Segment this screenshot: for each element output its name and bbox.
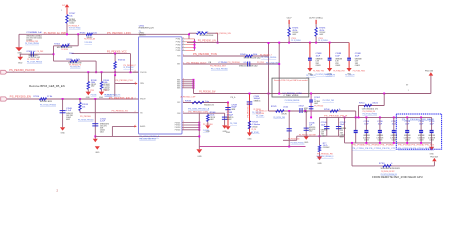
svg-text:EN/UV: EN/UV bbox=[140, 99, 146, 101]
svg-text:PS_C7122_PE PS_C7124_PE PS_C: PS_C7122_PE PS_C7124_PE PS_C bbox=[398, 148, 435, 150]
svg-text:CSP: CSP bbox=[177, 102, 180, 104]
svg-text:0402: 0402 bbox=[292, 34, 296, 36]
svg-text:PS_C7116_PE PS_C7118_PE PS_C71: PS_C7116_PE PS_C7118_PE PS_C71 bbox=[352, 148, 396, 150]
svg-text:PVIN5: PVIN5 bbox=[176, 50, 181, 52]
svg-text:GRM155 16V X5R 0402: GRM155 16V X5R 0402 bbox=[239, 66, 258, 68]
svg-text:PS_PEX300_AA_PWR: PS_PEX300_AA_PWR bbox=[44, 32, 66, 35]
svg-text:PVIN2: PVIN2 bbox=[176, 42, 181, 44]
svg-text:SW2: SW2 bbox=[177, 82, 181, 84]
svg-text:10V X5R: 10V X5R bbox=[309, 129, 316, 131]
svg-text:6.3V X5R: 6.3V X5R bbox=[418, 137, 426, 139]
svg-text:0: 0 bbox=[207, 32, 208, 34]
svg-text:PS_PEX300_SS: PS_PEX300_SS bbox=[112, 110, 129, 112]
svg-text:HSM67MTQJ-R: HSM67MTQJ-R bbox=[139, 28, 154, 30]
svg-text:GRM188: GRM188 bbox=[340, 128, 346, 130]
svg-text:GRM155: GRM155 bbox=[254, 100, 261, 102]
svg-text:C7069B/E 1uF: C7069B/E 1uF bbox=[26, 32, 42, 34]
svg-text:R7116: R7116 bbox=[33, 96, 40, 98]
svg-text:6.3V X5R: 6.3V X5R bbox=[428, 137, 436, 139]
svg-text:PS_PEX300_FB_RMT: PS_PEX300_FB_RMT bbox=[381, 171, 395, 173]
svg-text:100k: 100k bbox=[91, 82, 95, 84]
svg-text:C0603: C0603 bbox=[321, 136, 326, 138]
svg-text:PS_R_PEX300: PS_R_PEX300 bbox=[291, 40, 300, 42]
svg-text:PGND4: PGND4 bbox=[175, 130, 181, 132]
svg-text:SW1: SW1 bbox=[177, 80, 181, 82]
svg-text:PVIN1: PVIN1 bbox=[176, 39, 181, 41]
svg-text:PS_PEX300_REMOVE: PS_PEX300_REMOVE bbox=[285, 100, 300, 102]
svg-text:PS_PEX300_LION: PS_PEX300_LION bbox=[107, 32, 131, 35]
svg-text:C0603: C0603 bbox=[340, 135, 345, 137]
svg-text:PS_PGND PS_PGND PS_PGND: PS_PGND PS_PGND PS_PGND bbox=[352, 145, 395, 147]
svg-text:PS3_V08: PS3_V08 bbox=[430, 156, 438, 158]
svg-text:C0603: C0603 bbox=[405, 139, 410, 141]
svg-text:20.0k: 20.0k bbox=[283, 107, 288, 109]
svg-text:PS_R7112_PEX300_F: PS_R7112_PEX300_F bbox=[317, 156, 335, 158]
svg-text:2.0m: 2.0m bbox=[93, 33, 98, 35]
svg-text:PS_C7106_PEX: PS_C7106_PEX bbox=[266, 62, 280, 64]
svg-text:HS_U82 SK3 HS3: HS_U82 SK3 HS3 bbox=[139, 138, 156, 140]
svg-text:NT: NT bbox=[406, 84, 408, 86]
svg-text:6.3V X5R: 6.3V X5R bbox=[404, 137, 412, 139]
svg-text:PS_C7069_PEX300: PS_C7069_PEX300 bbox=[27, 61, 42, 63]
svg-text:PS_R7102_PEX: PS_R7102_PEX bbox=[323, 100, 335, 102]
svg-text:R7106: R7106 bbox=[324, 109, 330, 111]
svg-text:PS_PEX300_PH: PS_PEX300_PH bbox=[247, 102, 249, 118]
svg-text:U7_PEX300_COM: U7_PEX300_COM bbox=[283, 93, 302, 95]
svg-text:CRCW0402: CRCW0402 bbox=[252, 126, 257, 128]
svg-text:PS3: PS3 bbox=[90, 90, 93, 92]
svg-text:PS_PEX300_BOOT: PS_PEX300_BOOT bbox=[187, 63, 208, 65]
svg-text:C0603: C0603 bbox=[378, 139, 383, 141]
svg-text:R7032: R7032 bbox=[197, 32, 203, 34]
svg-text:C7098 10pF: C7098 10pF bbox=[299, 105, 305, 107]
svg-text:0.1uF: 0.1uF bbox=[66, 110, 72, 112]
svg-text:10uF: 10uF bbox=[335, 55, 340, 57]
svg-text:C0603: C0603 bbox=[316, 65, 321, 67]
svg-text:R7036: R7036 bbox=[66, 59, 72, 61]
svg-text:PS_PGND PS_PGND PS_PG: PS_PGND PS_PGND PS_PG bbox=[398, 145, 435, 147]
svg-text:SW3: SW3 bbox=[177, 84, 181, 86]
svg-text:PS_R7102_PEX300_FB: PS_R7102_PEX300_FB bbox=[316, 74, 333, 76]
svg-text:PS_PEX: PS_PEX bbox=[37, 51, 44, 53]
svg-text:PVIN3: PVIN3 bbox=[176, 44, 181, 46]
svg-text:R7105: R7105 bbox=[54, 43, 60, 45]
svg-text:C0603: C0603 bbox=[429, 139, 434, 141]
svg-text:R7040: R7040 bbox=[240, 54, 246, 56]
svg-text:PS_COMP_: PS_COMP_ bbox=[256, 116, 265, 118]
svg-text:10uF: 10uF bbox=[316, 55, 321, 57]
svg-text:PS_PEX300_AA: PS_PEX300_AA bbox=[84, 37, 95, 40]
svg-text:R7034: R7034 bbox=[80, 33, 86, 35]
svg-text:GND: GND bbox=[347, 73, 352, 75]
svg-text:U10_P: U10_P bbox=[287, 17, 292, 19]
svg-text:2.0m: 2.0m bbox=[205, 101, 210, 103]
svg-text:AGND: AGND bbox=[140, 125, 146, 128]
svg-text:6.3V X5R: 6.3V X5R bbox=[390, 137, 398, 139]
svg-text:PS_PEX300_CSN: PS_PEX300_CSN bbox=[188, 112, 208, 114]
svg-text:GND: GND bbox=[317, 163, 322, 165]
svg-text:PS_R7107_PEX300: PS_R7107_PEX300 bbox=[69, 28, 81, 30]
svg-text:GRM188: GRM188 bbox=[321, 130, 327, 132]
svg-text:C0603: C0603 bbox=[355, 65, 360, 67]
svg-text:GRM188: GRM188 bbox=[428, 135, 434, 137]
svg-text:CRCW0402: CRCW0402 bbox=[103, 84, 109, 86]
svg-text:PS_PEX300: PS_PEX300 bbox=[314, 105, 323, 107]
svg-text:10k: 10k bbox=[69, 16, 72, 18]
svg-text:C0603: C0603 bbox=[364, 139, 369, 141]
svg-text:PS_PEX300_PG1: PS_PEX300_PG1 bbox=[116, 80, 134, 82]
svg-text:1: 1 bbox=[408, 90, 409, 92]
svg-text:PS_PEX300: PS_PEX300 bbox=[203, 124, 213, 126]
svg-text:PS_R7018_PEX300: PS_R7018_PEX300 bbox=[78, 120, 93, 122]
svg-text:PS_R7034_PEX300: PS_R7034_PEX300 bbox=[85, 42, 93, 44]
svg-text:GRM: GRM bbox=[231, 109, 236, 111]
svg-text:PVIN4: PVIN4 bbox=[176, 47, 181, 49]
svg-text:0402: 0402 bbox=[66, 119, 70, 121]
svg-text:PS_PEX300_VCC: PS_PEX300_VCC bbox=[107, 52, 127, 54]
svg-text:17.8k: 17.8k bbox=[47, 96, 52, 98]
svg-text:10uF: 10uF bbox=[355, 55, 360, 57]
svg-text:FROM REMOTE PEX_2V0D NEAR GPU: FROM REMOTE PEX_2V0D NEAR GPU bbox=[372, 176, 423, 179]
svg-text:PS_PEX300_CO: PS_PEX300_CO bbox=[256, 111, 268, 113]
svg-text:GND: GND bbox=[18, 62, 23, 64]
svg-text:1: 1 bbox=[61, 10, 62, 12]
svg-text:PS_R7110_PEX30: PS_R7110_PEX30 bbox=[363, 114, 378, 116]
svg-text:6.3V X5R: 6.3V X5R bbox=[376, 137, 384, 139]
svg-text:GRM188: GRM188 bbox=[377, 135, 383, 137]
svg-text:PS_PEX300_V08: PS_PEX300_V08 bbox=[288, 138, 299, 140]
svg-text:PS_R7116_PEX300: PS_R7116_PEX300 bbox=[40, 105, 56, 107]
svg-text:PS_PEX300_LIN: PS_PEX300_LIN bbox=[198, 40, 216, 43]
svg-text:PS_G: PS_G bbox=[231, 97, 236, 99]
svg-text:GRM188: GRM188 bbox=[391, 135, 397, 137]
svg-text:PGND3: PGND3 bbox=[175, 127, 181, 129]
svg-text:MCR03 ERJ: MCR03 ERJ bbox=[40, 101, 52, 103]
svg-text:PS_R7108_PEX300_PG: PS_R7108_PEX300_PG bbox=[105, 94, 121, 96]
svg-text:WSL0603 0.5%: WSL0603 0.5% bbox=[204, 105, 214, 107]
svg-text:PGND2: PGND2 bbox=[175, 125, 181, 127]
svg-text:GRM188: GRM188 bbox=[363, 135, 369, 137]
svg-text:PS_R7046: PS_R7046 bbox=[203, 130, 209, 132]
svg-text:PS_PGND_PEX3: PS_PGND_PEX3 bbox=[353, 71, 365, 73]
svg-text:GND: GND bbox=[222, 131, 227, 133]
svg-text:GRM188: GRM188 bbox=[404, 135, 410, 137]
svg-text:PS_C7069_PEX300: PS_C7069_PEX300 bbox=[25, 43, 39, 45]
svg-text:SW4: SW4 bbox=[177, 86, 181, 88]
svg-text:C REF VREF: C REF VREF bbox=[283, 95, 298, 97]
svg-text:CRCW: CRCW bbox=[281, 114, 287, 116]
svg-text:R7110: R7110 bbox=[359, 102, 364, 104]
svg-text:C0603: C0603 bbox=[419, 139, 424, 141]
svg-text:PS_R36: PS_R36 bbox=[91, 95, 97, 97]
svg-text:1% 0402: 1% 0402 bbox=[103, 86, 109, 88]
svg-text:TDA88240RTV: TDA88240RTV bbox=[139, 34, 146, 37]
svg-text:C7069E 1uF: C7069E 1uF bbox=[26, 51, 36, 53]
svg-text:C0402: C0402 bbox=[69, 23, 74, 25]
svg-text:6.3V X5R: 6.3V X5R bbox=[363, 137, 371, 139]
svg-text:GRM188: GRM188 bbox=[418, 135, 424, 137]
svg-text:10k: 10k bbox=[82, 106, 85, 108]
svg-text:U4_PEX_CLKREQ_L: U4_PEX_CLKREQ_L bbox=[309, 17, 323, 19]
svg-text:PS_SNS_PEX300_A: PS_SNS_PEX300_A bbox=[188, 107, 210, 110]
svg-text:PS_R7108_PEX: PS_R7108_PEX bbox=[123, 67, 134, 69]
svg-text:PS_PEX: PS_PEX bbox=[257, 62, 265, 64]
svg-text:PS_PEX300_VIN: PS_PEX300_VIN bbox=[216, 33, 232, 35]
svg-text:0.1uF: 0.1uF bbox=[244, 62, 250, 64]
svg-text:CRCW0402: CRCW0402 bbox=[323, 147, 330, 149]
svg-text:A_PEX300_CSP: A_PEX300_CSP bbox=[181, 95, 197, 98]
svg-text:0402: 0402 bbox=[319, 34, 323, 36]
svg-text:PS_PEX300: PS_PEX300 bbox=[228, 62, 240, 64]
svg-text:GND: GND bbox=[95, 152, 100, 154]
svg-text:SW5: SW5 bbox=[177, 88, 181, 90]
svg-text:PS_R7076_PEX: PS_R7076_PEX bbox=[273, 117, 285, 119]
svg-text:PS_PEX300_FB: PS_PEX300_FB bbox=[363, 111, 376, 113]
svg-text:R7108 10k: R7108 10k bbox=[118, 60, 125, 62]
svg-text:PS_PEX300_T: PS_PEX300_T bbox=[260, 55, 273, 57]
svg-text:PS3_V33: PS3_V33 bbox=[425, 70, 433, 72]
svg-text:0402: 0402 bbox=[100, 131, 104, 133]
svg-text:PS_PEX300_FB_R: PS_PEX300_FB_R bbox=[324, 116, 348, 118]
svg-text:C0402: C0402 bbox=[227, 119, 232, 121]
svg-text:PS_PEX300: PS_PEX300 bbox=[80, 116, 91, 118]
svg-text:PS_PGND_PEX: PS_PGND_PEX bbox=[313, 71, 325, 73]
svg-text:GND: GND bbox=[60, 133, 65, 135]
svg-text:Remove PCIE CLK pull CAP if no: Remove PCIE CLK pull CAP if not needed bbox=[274, 79, 308, 82]
svg-text:PS_R7048_: PS_R7048_ bbox=[251, 132, 260, 134]
svg-text:10k: 10k bbox=[67, 43, 70, 45]
svg-text:C7106: C7106 bbox=[218, 62, 226, 64]
svg-text:GRM155: GRM155 bbox=[309, 127, 315, 129]
svg-text:10.7k: 10.7k bbox=[323, 145, 328, 147]
svg-text:BST: BST bbox=[177, 64, 180, 66]
svg-text:CRCW: CRCW bbox=[91, 84, 96, 86]
svg-text:MCR03 ERJ2GE 0402: MCR03 ERJ2GE 0402 bbox=[244, 58, 261, 60]
svg-text:100k: 100k bbox=[103, 82, 107, 84]
svg-text:PGND1: PGND1 bbox=[175, 122, 181, 124]
svg-text:PS_SNS_PEX300_: PS_SNS_PEX300_ bbox=[291, 143, 306, 145]
svg-text:PS_PEX300_EN_P: PS_PEX300_EN_P bbox=[109, 98, 134, 100]
svg-text:PS_PEX300_SW: PS_PEX300_SW bbox=[199, 91, 216, 93]
svg-text:PGOOD: PGOOD bbox=[140, 72, 147, 74]
svg-text:GND: GND bbox=[247, 138, 252, 140]
svg-text:C0603: C0603 bbox=[391, 139, 396, 141]
svg-text:PS_C_PEX300_V08_BANK: PS_C_PEX300_V08_BANK bbox=[402, 118, 435, 121]
svg-text:0603: 0603 bbox=[340, 137, 344, 139]
svg-text:R7119: R7119 bbox=[379, 163, 386, 165]
svg-text:49.9k: 49.9k bbox=[76, 59, 81, 61]
svg-text:Remove BP03_GE8_FB_EN: Remove BP03_GE8_FB_EN bbox=[29, 86, 65, 88]
svg-text:PS_PGND_PEX: PS_PGND_PEX bbox=[333, 71, 345, 73]
svg-text:PS3: PS3 bbox=[104, 90, 107, 92]
svg-text:PS_PEX300: PS_PEX300 bbox=[61, 49, 68, 51]
svg-text:MCR03 ERJ2GE: MCR03 ERJ2GE bbox=[200, 35, 215, 37]
svg-text:PS_R7040_PEX300: PS_R7040_PEX300 bbox=[261, 57, 276, 59]
svg-text:1 Meohm: 1 Meohm bbox=[372, 102, 378, 104]
svg-text:300k: 300k bbox=[253, 54, 257, 56]
svg-text:PS_R_PEX300: PS_R_PEX300 bbox=[318, 40, 327, 42]
svg-text:GND: GND bbox=[197, 156, 202, 158]
svg-text:R7: R7 bbox=[311, 74, 313, 76]
svg-text:0402: 0402 bbox=[304, 112, 308, 114]
svg-text:WSL0805 MCR03 ERJ: WSL0805 MCR03 ERJ bbox=[381, 168, 400, 170]
svg-text:PS_PEX300_V08_RMT: PS_PEX300_V08_RMT bbox=[299, 135, 317, 137]
svg-text:PS_C7106_PEX300: PS_C7106_PEX300 bbox=[211, 68, 228, 70]
svg-text:GND: GND bbox=[429, 153, 434, 155]
svg-text:0402: 0402 bbox=[210, 119, 214, 121]
svg-text:GND: GND bbox=[304, 142, 309, 144]
svg-text:1k: 1k bbox=[339, 109, 341, 111]
svg-text:0402: 0402 bbox=[309, 131, 313, 133]
svg-text:PS_R7036_PEX: PS_R7036_PEX bbox=[70, 67, 81, 69]
svg-text:PS_C7038: PS_C7038 bbox=[230, 123, 237, 125]
svg-text:PS_PEX300_TON: PS_PEX300_TON bbox=[193, 54, 217, 56]
svg-text:R7034: R7034 bbox=[185, 100, 191, 102]
svg-text:R7076: R7076 bbox=[271, 106, 277, 108]
svg-text:C0603: C0603 bbox=[335, 65, 340, 67]
svg-text:3V3: 3V3 bbox=[62, 5, 65, 7]
svg-text:PS_PEX300_EN: PS_PEX300_EN bbox=[10, 97, 32, 99]
svg-text:0402: 0402 bbox=[91, 86, 95, 88]
